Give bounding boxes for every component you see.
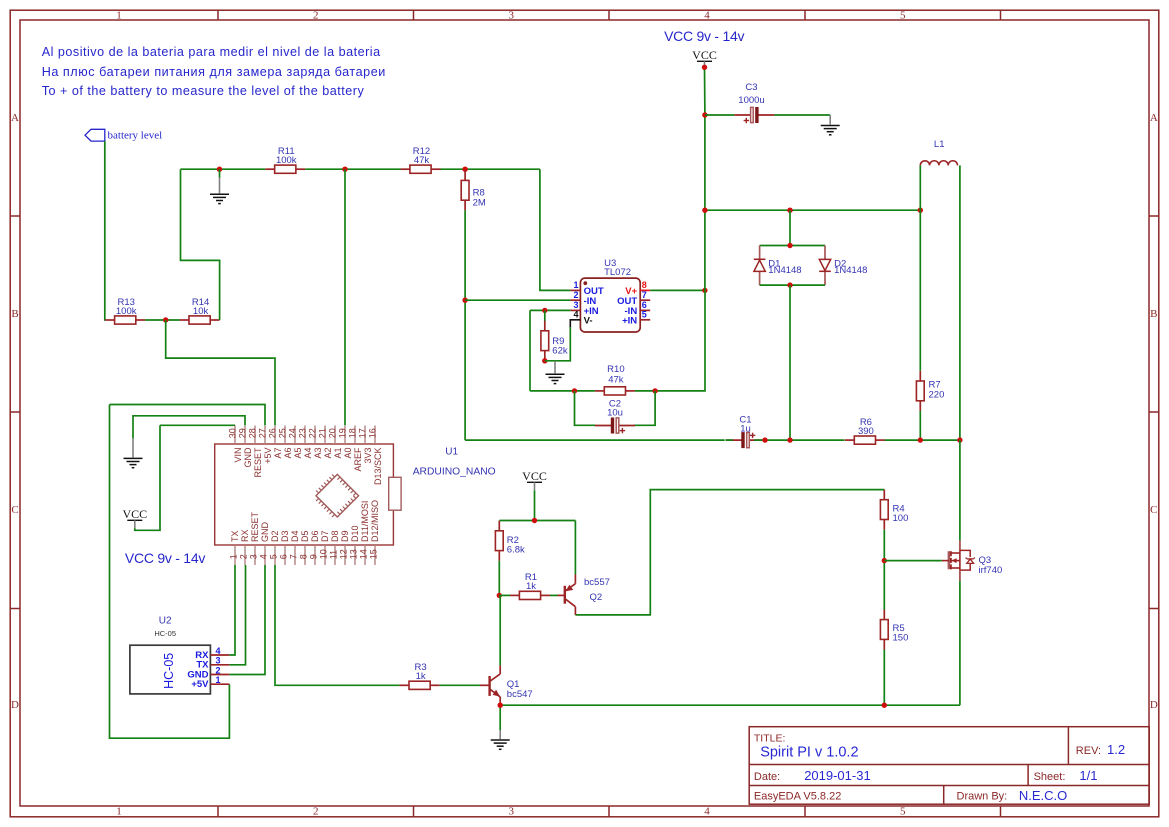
svg-text:14: 14 xyxy=(359,549,369,559)
svg-text:2: 2 xyxy=(313,806,319,818)
ground xyxy=(821,115,840,135)
VCC power symbol xyxy=(692,48,717,69)
svg-text:L1: L1 xyxy=(934,139,945,150)
U3 pin 6 xyxy=(625,300,651,317)
svg-text:VCC 9v - 14v: VCC 9v - 14v xyxy=(664,28,744,44)
svg-text:+IN: +IN xyxy=(622,315,637,326)
capacitor C2 xyxy=(595,398,635,433)
VCC power symbol xyxy=(122,507,147,528)
VCC power symbol xyxy=(522,469,547,490)
junction diode bottom xyxy=(787,282,792,287)
wire C3 to gnd xyxy=(774,114,830,116)
U3 pin 5 xyxy=(622,309,650,326)
svg-text:U1: U1 xyxy=(445,446,458,457)
svg-text:2: 2 xyxy=(573,290,578,300)
svg-text:A: A xyxy=(11,112,19,124)
U1 bottom pin 9 D6 xyxy=(309,530,321,565)
svg-text:150: 150 xyxy=(893,632,909,643)
svg-text:HC-05: HC-05 xyxy=(162,653,176,689)
svg-text:5: 5 xyxy=(269,554,279,559)
svg-text:22: 22 xyxy=(308,428,318,438)
U1 bottom pin 15 D12/MISO xyxy=(369,500,381,565)
junction R9 bottom xyxy=(542,358,547,363)
svg-text:A3: A3 xyxy=(313,448,323,459)
resistor R4 xyxy=(880,490,908,530)
wire to Q3 drain xyxy=(959,440,961,540)
wire L1 left leg xyxy=(919,165,921,210)
junction A0 tap xyxy=(342,167,347,172)
svg-text:4: 4 xyxy=(704,10,710,22)
U1 bottom pin 6 D3 xyxy=(279,530,291,565)
svg-text:17: 17 xyxy=(358,428,368,438)
wire Q1 emitter down xyxy=(499,703,501,730)
U1 bottom pin 2 RX xyxy=(239,529,251,565)
wire R3 to Q1 base xyxy=(440,684,480,686)
svg-text:Spirit PI v 1.0.2: Spirit PI v 1.0.2 xyxy=(760,745,858,761)
svg-text:D10: D10 xyxy=(350,525,360,542)
wire diode box top xyxy=(760,245,825,247)
svg-text:2: 2 xyxy=(313,10,319,22)
svg-text:28: 28 xyxy=(248,428,258,438)
ground xyxy=(491,730,510,749)
svg-text:D4: D4 xyxy=(290,530,300,542)
svg-text:D9: D9 xyxy=(340,530,350,542)
title block xyxy=(749,727,1149,805)
module U2 HC-05 xyxy=(130,616,211,694)
U3 pin 8 V+ xyxy=(625,280,650,297)
wire row to C1 xyxy=(465,439,725,441)
U1 top pin 29 GND xyxy=(238,426,253,468)
svg-text:V-: V- xyxy=(584,315,593,326)
diode D2 1N4148 xyxy=(819,246,867,286)
wire net battery_level xyxy=(104,141,106,320)
svg-text:D: D xyxy=(1150,699,1158,711)
svg-text:RX: RX xyxy=(240,529,250,542)
svg-text:13: 13 xyxy=(349,549,359,559)
junction L1 left xyxy=(918,208,923,213)
transistor Q3 irf740 xyxy=(942,540,1002,581)
svg-text:3: 3 xyxy=(216,656,221,666)
svg-text:7: 7 xyxy=(642,290,647,300)
svg-text:1.2: 1.2 xyxy=(1107,742,1125,757)
svg-text:8: 8 xyxy=(299,554,309,559)
svg-text:220: 220 xyxy=(929,390,945,401)
U2 pin 1 +5V xyxy=(191,675,229,690)
U1 bottom pin 12 D9 xyxy=(339,530,351,565)
wire +IN to R9 xyxy=(544,310,546,321)
wire R7 bottom xyxy=(919,411,921,440)
wire VCC column xyxy=(704,67,706,290)
svg-text:1N4148: 1N4148 xyxy=(768,265,801,276)
svg-text:ARDUINO_NANO: ARDUINO_NANO xyxy=(413,466,496,477)
junction Q1 emitter xyxy=(498,703,503,708)
svg-text:На плюс батареи питания для за: На плюс батареи питания для замера заряд… xyxy=(42,65,386,79)
svg-text:4: 4 xyxy=(216,646,221,656)
svg-text:7: 7 xyxy=(289,554,299,559)
transistor Q1 bc547 xyxy=(480,665,533,703)
wire VCC left hook xyxy=(135,425,160,530)
U3 pin 3 xyxy=(570,300,598,317)
svg-text:A1: A1 xyxy=(333,448,343,459)
svg-text:D2: D2 xyxy=(270,530,280,542)
U1 top pin 17 3V3 xyxy=(358,426,373,464)
svg-text:REV:: REV: xyxy=(1076,745,1101,757)
wire D2 pin to R3 xyxy=(275,566,400,685)
svg-text:2: 2 xyxy=(216,665,221,675)
wire VCC to C3 xyxy=(705,114,735,116)
svg-text:24: 24 xyxy=(288,428,298,438)
resistor R13 xyxy=(105,297,145,324)
svg-text:VIN: VIN xyxy=(233,448,243,463)
resistor R8 xyxy=(461,170,486,210)
svg-text:HC-05: HC-05 xyxy=(154,629,176,638)
resistor R14 xyxy=(180,297,220,324)
wire L1 to R7 xyxy=(919,210,921,371)
resistor R7 xyxy=(916,371,944,411)
junction Q3 gate xyxy=(882,558,887,563)
svg-text:1N4148: 1N4148 xyxy=(834,265,867,276)
U1 bottom pin 11 D8 xyxy=(329,530,341,565)
wire Q2 collector to R4 xyxy=(575,490,884,615)
svg-text:3: 3 xyxy=(508,806,514,818)
wire HC05 RX to TX1 xyxy=(229,565,235,655)
svg-text:6.8k: 6.8k xyxy=(507,545,525,556)
svg-text:3V3: 3V3 xyxy=(363,448,373,464)
U2 pin 4 RX xyxy=(195,646,229,661)
resistor R1 xyxy=(510,572,550,599)
wire top row left xyxy=(181,168,266,170)
wire Q1 collector up xyxy=(499,595,501,665)
U3 pin 7 xyxy=(617,290,650,307)
U3 pin 4 V- xyxy=(570,309,592,327)
svg-text:47k: 47k xyxy=(608,375,624,386)
svg-text:D7: D7 xyxy=(320,530,330,542)
capacitor C1 xyxy=(726,415,766,449)
wire U3 pin8 to VCC column xyxy=(650,289,705,291)
U1 bottom pin 7 D4 xyxy=(289,530,301,565)
junction L1 right column xyxy=(957,437,962,442)
U1 top pin 23 A4 xyxy=(298,426,313,459)
svg-text:1: 1 xyxy=(116,10,122,22)
resistor R12 xyxy=(401,146,441,173)
U1 top pin 27 +5V xyxy=(258,426,273,464)
svg-text:C: C xyxy=(11,504,18,516)
wire diode box bottom xyxy=(760,284,825,286)
wire U3 pin3 row xyxy=(530,309,570,311)
svg-text:1k: 1k xyxy=(526,581,536,592)
svg-text:15: 15 xyxy=(369,549,379,559)
U3 pin 1 xyxy=(570,280,603,297)
junction R13/R14 node xyxy=(163,317,168,322)
svg-text:30: 30 xyxy=(228,428,238,438)
svg-text:100k: 100k xyxy=(276,155,297,166)
svg-text:D12/MISO: D12/MISO xyxy=(370,500,380,542)
svg-text:A0: A0 xyxy=(343,448,353,459)
transistor Q2 bc557 xyxy=(557,575,610,615)
svg-text:10k: 10k xyxy=(193,306,209,317)
wire R6 right xyxy=(885,439,960,441)
wire C1 left green xyxy=(726,439,734,441)
wire VCC to Q2 node xyxy=(534,490,536,520)
U1 top pin 18 AREF xyxy=(348,426,363,472)
svg-text:RESET: RESET xyxy=(250,511,260,542)
wire +5V net top xyxy=(110,405,266,426)
junction VCC mid xyxy=(532,518,537,523)
U1 bottom pin 13 D10 xyxy=(349,525,361,565)
inductor L1 xyxy=(920,139,957,165)
resistor R6 xyxy=(845,417,885,444)
resistor R9 xyxy=(541,321,568,361)
U1 bottom pin 10 D7 xyxy=(319,530,331,565)
junction V+/VCC xyxy=(702,288,707,293)
svg-text:11: 11 xyxy=(329,550,339,559)
U1 top pin 22 A3 xyxy=(308,426,323,459)
svg-text:1k: 1k xyxy=(416,671,426,682)
U2 pin 2 GND xyxy=(187,665,229,680)
svg-text:Sheet:: Sheet: xyxy=(1034,771,1066,783)
wire VCC row to L1 xyxy=(705,209,920,211)
wire C2 right leg xyxy=(635,391,656,425)
svg-text:D8: D8 xyxy=(330,530,340,542)
svg-text:26: 26 xyxy=(268,428,278,438)
wire R1 left xyxy=(499,594,510,596)
svg-text:29: 29 xyxy=(238,428,248,438)
wire bottom rail xyxy=(500,704,960,706)
wire C2 left leg xyxy=(575,391,596,425)
U1 usb connector xyxy=(389,477,401,510)
wire HC05 GND xyxy=(229,565,265,675)
U1 top pin 20 A1 xyxy=(328,426,343,459)
junction VCC row xyxy=(702,208,707,213)
svg-text:16: 16 xyxy=(368,428,378,438)
wire diode branch down xyxy=(789,285,791,440)
svg-text:1: 1 xyxy=(229,554,239,559)
wire R13-R14 xyxy=(145,319,179,321)
svg-text:N.E.C.O: N.E.C.O xyxy=(1019,788,1067,803)
junction R1/R2/Q1 xyxy=(497,593,502,598)
svg-text:1: 1 xyxy=(216,675,221,685)
svg-text:2M: 2M xyxy=(473,198,486,209)
svg-text:RESET: RESET xyxy=(253,447,263,478)
svg-text:+5V: +5V xyxy=(191,679,209,690)
svg-text:1/1: 1/1 xyxy=(1079,768,1097,783)
svg-text:GND: GND xyxy=(243,447,253,468)
svg-text:C3: C3 xyxy=(745,82,757,93)
U1 bottom pin 8 D5 xyxy=(299,530,311,565)
junction C1 right xyxy=(762,437,767,442)
wire L1 right leg xyxy=(959,165,961,440)
svg-text:Date:: Date: xyxy=(754,771,780,783)
wire R5 bottom xyxy=(883,650,885,706)
svg-text:5: 5 xyxy=(900,806,906,818)
U1 top pin 24 A5 xyxy=(288,426,303,459)
IC U1 ARDUINO_NANO xyxy=(215,444,496,545)
svg-text:27: 27 xyxy=(258,428,268,438)
svg-text:9: 9 xyxy=(309,554,319,559)
junction R7 bottom xyxy=(918,437,923,442)
capacitor C3 xyxy=(734,82,774,123)
svg-text:To + of the battery to measure: To + of the battery to measure the level… xyxy=(42,84,365,98)
svg-text:1u: 1u xyxy=(740,423,751,434)
wire R1 to Q2 base xyxy=(550,594,558,596)
svg-text:100: 100 xyxy=(893,513,909,524)
svg-text:TX: TX xyxy=(230,530,240,542)
svg-text:VCC: VCC xyxy=(122,507,147,521)
svg-text:25: 25 xyxy=(278,428,288,438)
wire R8 bottom column xyxy=(464,210,466,440)
wire pin5 stub xyxy=(274,565,276,566)
svg-text:2: 2 xyxy=(239,554,249,559)
junction C2 left xyxy=(572,388,577,393)
svg-text:47k: 47k xyxy=(414,155,430,166)
U1 bottom pin 5 D2 xyxy=(269,530,281,565)
wire C1 to R6 xyxy=(765,439,845,441)
resistor R3 xyxy=(400,662,440,689)
svg-text:D6: D6 xyxy=(310,530,320,542)
svg-text:A: A xyxy=(1150,112,1158,124)
wire R4-R5 xyxy=(883,530,885,610)
svg-text:Drawn By:: Drawn By: xyxy=(957,791,1008,803)
svg-text:5: 5 xyxy=(642,309,647,319)
svg-text:R10: R10 xyxy=(607,364,624,375)
U2 pin 3 TX xyxy=(196,656,229,671)
svg-text:+5V: +5V xyxy=(263,448,273,464)
svg-text:A6: A6 xyxy=(283,448,293,459)
wire HC05 TX to RX2 xyxy=(229,565,245,665)
svg-text:3: 3 xyxy=(508,10,514,22)
U3 pin 2 xyxy=(570,290,596,307)
junction +IN/R9 xyxy=(542,308,547,313)
U1 top pin 16 D13/SCK xyxy=(368,426,383,486)
svg-text:VCC: VCC xyxy=(692,48,717,62)
resistor R2 xyxy=(495,521,525,561)
U1 top pin 30 VIN xyxy=(228,426,243,463)
svg-text:AREF: AREF xyxy=(353,447,363,472)
svg-text:B: B xyxy=(11,308,18,320)
U1 top pin 25 A6 xyxy=(278,426,293,459)
svg-text:3: 3 xyxy=(249,554,259,559)
junction C3 tap xyxy=(702,112,707,117)
svg-text:EasyEDA V5.8.22: EasyEDA V5.8.22 xyxy=(754,791,841,803)
svg-text:4: 4 xyxy=(259,554,269,559)
svg-text:21: 21 xyxy=(318,428,328,438)
svg-text:12: 12 xyxy=(339,549,349,559)
svg-text:D11/MOSI: D11/MOSI xyxy=(360,501,370,542)
junction C2 right xyxy=(652,388,657,393)
wire to pin A0 xyxy=(344,169,346,425)
ground xyxy=(210,178,229,204)
resistor R11 xyxy=(265,146,305,173)
svg-text:D3: D3 xyxy=(280,530,290,542)
resistor R10 xyxy=(595,364,635,395)
svg-text:Al positivo de la bateria para: Al positivo de la bateria para medir el … xyxy=(42,45,381,59)
svg-text:20: 20 xyxy=(328,428,338,438)
svg-text:19: 19 xyxy=(338,428,348,438)
svg-text:A4: A4 xyxy=(303,448,313,459)
svg-text:TITLE:: TITLE: xyxy=(754,732,786,744)
U1 top pin 21 A2 xyxy=(318,426,333,459)
wire to A7 staircase xyxy=(166,320,274,358)
svg-text:D13/SCK: D13/SCK xyxy=(373,448,383,486)
svg-text:8: 8 xyxy=(642,280,647,290)
svg-text:irf740: irf740 xyxy=(979,565,1003,576)
wire R12 right xyxy=(441,168,540,170)
wire R9 to V- xyxy=(545,327,571,361)
svg-text:A2: A2 xyxy=(323,448,333,459)
junction diode top xyxy=(787,243,792,248)
wire to U3 pin2 xyxy=(465,299,570,301)
wire R2 bottom xyxy=(498,561,500,596)
U1 top pin 26 A7 xyxy=(268,426,283,459)
svg-text:390: 390 xyxy=(858,426,874,437)
svg-text:5: 5 xyxy=(900,10,906,22)
wire R10 right / VCC column lower xyxy=(635,290,705,391)
junction VCC top xyxy=(702,65,707,70)
svg-text:GND: GND xyxy=(260,522,270,543)
svg-text:C: C xyxy=(1150,504,1157,516)
wire R10 row left xyxy=(530,390,595,392)
wire +IN column xyxy=(529,310,531,391)
wire Q2 emitter up xyxy=(574,521,576,575)
svg-text:VCC 9v - 14v: VCC 9v - 14v xyxy=(125,550,205,566)
wire to diode box xyxy=(789,210,791,245)
U1 bottom pin 3 RESET xyxy=(249,511,261,565)
junction diode branch bottom xyxy=(787,437,792,442)
U1 top pin 28 RESET xyxy=(248,426,263,478)
wire to Q3 gate xyxy=(884,560,942,562)
svg-text:D5: D5 xyxy=(300,530,310,542)
wire rail to Q3 source xyxy=(959,581,961,705)
junction R12/R8 xyxy=(462,167,467,172)
ground xyxy=(546,361,565,384)
svg-text:10: 10 xyxy=(319,549,329,559)
junction R8/-IN xyxy=(462,298,467,303)
wire gnd tap xyxy=(219,169,221,177)
svg-text:A5: A5 xyxy=(293,448,303,459)
junction R5/rail xyxy=(882,703,887,708)
svg-text:U2: U2 xyxy=(159,616,172,627)
svg-text:62k: 62k xyxy=(552,345,568,356)
svg-text:4: 4 xyxy=(704,806,710,818)
U1 top pin 19 A0 xyxy=(338,426,353,459)
net flag battery level xyxy=(85,129,162,141)
wire to U3 pin1 xyxy=(540,169,571,290)
svg-text:B: B xyxy=(1150,308,1157,320)
wire to pin A7 xyxy=(273,358,275,425)
svg-text:23: 23 xyxy=(298,428,308,438)
wire Q2 emitter row xyxy=(499,520,575,522)
svg-text:TL072: TL072 xyxy=(604,267,631,278)
wire VIN net xyxy=(160,424,235,426)
svg-text:2019-01-31: 2019-01-31 xyxy=(804,768,871,783)
svg-text:1: 1 xyxy=(573,280,578,290)
svg-text:100k: 100k xyxy=(116,306,137,317)
junction gnd tap xyxy=(217,167,222,172)
svg-text:18: 18 xyxy=(348,428,358,438)
wire R11-R12 xyxy=(305,168,400,170)
svg-text:6: 6 xyxy=(279,554,289,559)
svg-text:Q2: Q2 xyxy=(590,592,603,603)
svg-text:1000u: 1000u xyxy=(738,95,764,106)
svg-text:battery level: battery level xyxy=(108,130,163,142)
svg-text:VCC: VCC xyxy=(522,469,547,483)
U1 chip glyph xyxy=(316,474,359,517)
wire R2 top xyxy=(498,520,500,522)
wire C1 right green xyxy=(754,439,766,441)
svg-text:A7: A7 xyxy=(273,448,283,459)
svg-text:10u: 10u xyxy=(607,408,623,419)
svg-text:bc557: bc557 xyxy=(584,577,610,588)
